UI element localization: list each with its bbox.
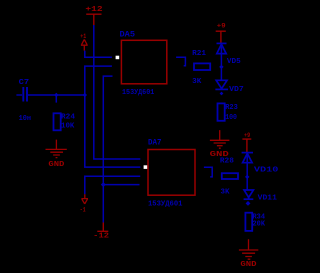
diode VD10 <box>242 153 253 163</box>
svg-text:-12: -12 <box>93 232 109 240</box>
svg-text:20K: 20K <box>253 221 266 229</box>
diode VD5 <box>217 43 227 53</box>
svg-text:R28: R28 <box>220 157 234 165</box>
node below VD11 <box>246 201 251 206</box>
power +9 top <box>216 31 226 43</box>
node R21/VD junction <box>219 65 223 69</box>
power -12 <box>97 223 108 232</box>
wire VD10 to VD11 <box>246 153 248 190</box>
svg-text:VD7: VD7 <box>229 86 244 94</box>
wire VD5 to VD7 <box>220 43 222 80</box>
svg-text:DA5: DA5 <box>120 31 136 40</box>
wire -12 rail branch to DA7 pin4 <box>103 184 139 186</box>
svg-text:GND: GND <box>48 161 64 169</box>
svg-text:+9: +9 <box>244 132 251 139</box>
wire DA7 output <box>204 167 212 177</box>
ground GND left <box>46 140 67 158</box>
svg-text:153УД601: 153УД601 <box>122 89 154 97</box>
svg-text:+1: +1 <box>80 33 86 40</box>
svg-text:VD5: VD5 <box>227 58 241 66</box>
wire R24 stub <box>55 95 57 103</box>
wire DA5 pin3 / -12 rail <box>103 76 112 222</box>
node R24 top junction <box>54 93 58 97</box>
power +9 right <box>242 139 251 152</box>
ground GND middle <box>210 130 230 148</box>
resistor R21 <box>194 63 210 70</box>
svg-text:R23: R23 <box>225 104 238 112</box>
resistor R34 <box>245 213 252 231</box>
svg-text:+12: +12 <box>85 6 102 14</box>
svg-text:100: 100 <box>225 114 237 122</box>
wire +12 rail to DA7 pin <box>94 25 141 159</box>
svg-text:VD10: VD10 <box>254 166 279 174</box>
diode VD11 <box>244 190 254 199</box>
wire +1 to DA5 pin1 <box>85 51 112 58</box>
node -12 rail / DA7 pin4 junction <box>101 182 106 187</box>
svg-text:153УД601: 153УД601 <box>148 201 183 209</box>
svg-text:DA7: DA7 <box>148 138 162 147</box>
resistor R24 <box>54 113 61 130</box>
diode VD7 <box>215 80 228 89</box>
op-amp DA7 <box>148 150 195 196</box>
svg-text:10K: 10K <box>61 122 75 130</box>
svg-text:C7: C7 <box>19 79 30 87</box>
wire DA7 pin3 to -1 port <box>85 176 140 194</box>
resistor R28 <box>222 173 238 179</box>
node C7 junction <box>83 93 87 97</box>
capacitor C7 <box>16 87 84 102</box>
svg-text:R24: R24 <box>61 114 75 122</box>
node R28/VD junction <box>245 175 249 179</box>
node below VD7 <box>220 92 224 96</box>
svg-text:R21: R21 <box>192 50 206 58</box>
wire DA5 output <box>176 57 185 66</box>
svg-text:3K: 3K <box>221 189 231 197</box>
port arrow -1 <box>81 194 88 204</box>
wire DA5 pin2 down to DA7 pin2 <box>85 66 141 167</box>
power +12 <box>86 14 101 25</box>
pin marker DA7 (white square) <box>144 165 148 169</box>
svg-text:GND: GND <box>240 261 256 269</box>
pin marker DA5 (white square) <box>116 56 120 60</box>
svg-text:-1: -1 <box>80 206 86 213</box>
ground GND bottom right <box>239 239 258 259</box>
resistor R23 <box>218 103 225 120</box>
svg-text:VD11: VD11 <box>258 194 277 202</box>
port arrow +1 <box>81 39 88 50</box>
svg-text:10н: 10н <box>19 115 31 123</box>
op-amp DA5 <box>121 40 166 84</box>
svg-text:3K: 3K <box>192 78 202 86</box>
svg-text:+9: +9 <box>217 23 226 30</box>
